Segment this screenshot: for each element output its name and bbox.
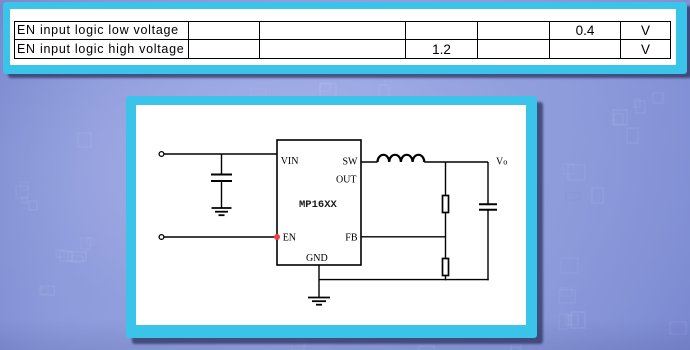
node EN red junction dot: [274, 234, 280, 240]
svg-text:SW: SW: [343, 157, 359, 168]
wire VIN input horizontal: [164, 153, 277, 155]
resistor R2: [443, 259, 449, 276]
svg-text:FB: FB: [345, 232, 358, 243]
wire capacitor C2 to bottom rail: [487, 210, 489, 280]
ground GND2: [308, 298, 330, 305]
svg-text:Vo: Vo: [496, 157, 507, 168]
inductor L1: [378, 155, 425, 162]
IC U1 MP16XX body: [277, 140, 361, 265]
wire R2 to bottom rail: [445, 276, 447, 281]
wire EN input horizontal: [164, 236, 277, 238]
svg-text:GND: GND: [306, 253, 328, 264]
wire SW pin to inductor: [361, 161, 378, 163]
svg-text:EN: EN: [283, 232, 296, 243]
wire bottom rail: [319, 279, 489, 281]
wire R1 to FB node: [445, 213, 447, 259]
svg-text:OUT: OUT: [336, 175, 357, 186]
wire capacitor C1 stem bottom: [221, 181, 223, 208]
capacitor C2: [479, 204, 497, 210]
capacitor C1: [211, 175, 232, 182]
wire capacitor C1 stem top: [221, 154, 223, 174]
wire FB pin to divider: [361, 236, 446, 238]
resistor R1: [443, 196, 449, 213]
svg-text:MP16XX: MP16XX: [299, 199, 338, 211]
ground GND1: [212, 208, 232, 215]
input terminal EN: [159, 235, 164, 240]
input terminal VIN: [159, 152, 164, 157]
wire feedback node down to R1: [445, 162, 447, 196]
wire output node down to capacitor C2: [487, 162, 489, 204]
svg-text:VIN: VIN: [281, 156, 299, 167]
wire inductor to output node: [424, 161, 488, 163]
wire GND pin stem: [318, 265, 320, 298]
